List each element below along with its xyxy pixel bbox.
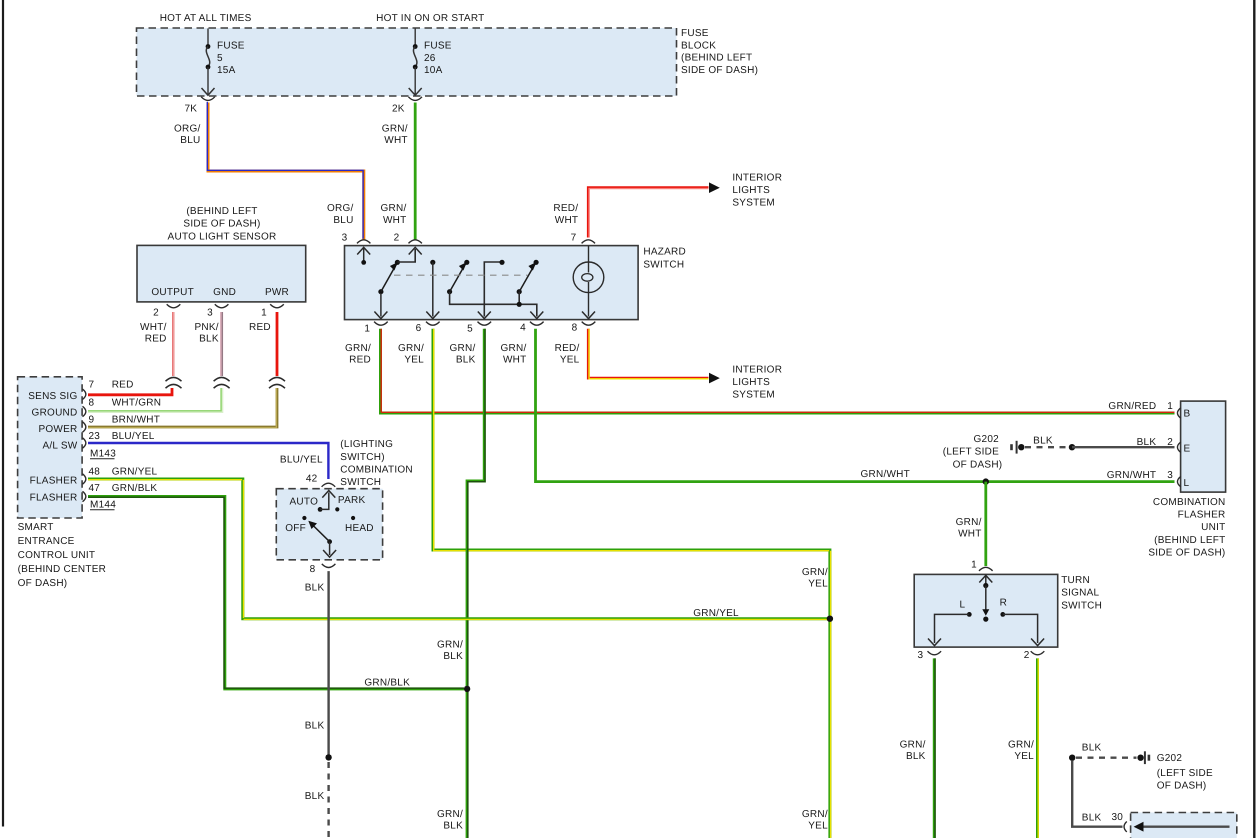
svg-text:RED: RED xyxy=(145,334,167,345)
svg-text:WHT/: WHT/ xyxy=(140,322,167,333)
svg-text:RED: RED xyxy=(249,322,271,333)
svg-text:GRN/WHT: GRN/WHT xyxy=(860,469,910,480)
svg-text:GND: GND xyxy=(213,287,236,298)
hazard pin 1 (bottom) xyxy=(374,322,388,326)
svg-text:RED: RED xyxy=(349,354,371,365)
svg-text:1: 1 xyxy=(364,324,370,335)
svg-text:BLK: BLK xyxy=(199,334,219,345)
svg-text:L: L xyxy=(1184,478,1190,489)
arrow to interior lights system xyxy=(709,182,720,193)
svg-text:HOT IN ON OR START: HOT IN ON OR START xyxy=(376,13,484,24)
hazard switch box xyxy=(345,246,639,320)
svg-text:BLK: BLK xyxy=(443,821,463,832)
svg-text:26: 26 xyxy=(424,53,436,64)
connector at dashed box xyxy=(1124,822,1127,832)
hazard internal: pin5 tap xyxy=(484,262,502,317)
svg-text:GRN/: GRN/ xyxy=(345,343,371,354)
svg-text:8: 8 xyxy=(89,398,95,409)
flasher pin L(3) connector xyxy=(1177,476,1180,486)
svg-text:BLK: BLK xyxy=(305,721,325,732)
svg-text:GRN/RED: GRN/RED xyxy=(1108,401,1156,412)
svg-text:1: 1 xyxy=(971,560,977,571)
svg-text:YEL: YEL xyxy=(404,354,424,365)
svg-text:COMBINATION: COMBINATION xyxy=(340,464,413,475)
svg-text:48: 48 xyxy=(89,467,101,478)
svg-text:23: 23 xyxy=(89,431,101,442)
svg-text:YEL: YEL xyxy=(808,821,828,832)
svg-text:HEAD: HEAD xyxy=(345,523,374,534)
inline connector (BRN/WHT to RED) xyxy=(269,377,285,381)
svg-text:BLU: BLU xyxy=(333,215,353,226)
svg-text:OF DASH): OF DASH) xyxy=(1157,781,1207,792)
TS internal: common pole xyxy=(985,575,987,583)
svg-text:PARK: PARK xyxy=(338,495,366,506)
fuse 26 10A xyxy=(409,29,452,96)
svg-text:GRN/: GRN/ xyxy=(398,343,424,354)
svg-text:INTERIOR: INTERIOR xyxy=(732,365,782,376)
svg-text:10A: 10A xyxy=(424,65,443,76)
turn signal switch box xyxy=(914,574,1057,647)
svg-text:GRN/WHT: GRN/WHT xyxy=(1107,470,1157,481)
wire BLK inside module with left arrow xyxy=(1138,826,1230,828)
svg-text:WHT: WHT xyxy=(384,135,408,146)
svg-text:7: 7 xyxy=(571,233,577,244)
hazard pin 4 (bottom) xyxy=(530,322,544,326)
comb switch internal: PARK contact xyxy=(335,507,339,511)
svg-text:AUTO: AUTO xyxy=(290,497,319,508)
svg-text:3: 3 xyxy=(342,233,348,244)
junction GRN/BLK xyxy=(464,686,470,692)
svg-text:4: 4 xyxy=(520,323,526,334)
svg-text:G202: G202 xyxy=(1157,753,1183,764)
pin 23 connector xyxy=(83,438,86,448)
svg-text:SWITCH: SWITCH xyxy=(1061,600,1102,611)
svg-text:RED/: RED/ xyxy=(553,203,578,214)
svg-text:GRN/: GRN/ xyxy=(437,809,463,820)
connector 2K xyxy=(408,97,422,101)
svg-text:BRN/WHT: BRN/WHT xyxy=(112,415,160,426)
svg-text:COMBINATION: COMBINATION xyxy=(1153,497,1226,508)
svg-text:FLASHER: FLASHER xyxy=(30,476,78,487)
svg-text:SIDE OF DASH): SIDE OF DASH) xyxy=(183,219,260,230)
svg-text:1: 1 xyxy=(1167,401,1173,412)
wire BLK to flasher pin E xyxy=(1072,446,1175,448)
svg-text:L: L xyxy=(959,600,965,611)
page left border xyxy=(2,0,4,827)
svg-text:WHT/GRN: WHT/GRN xyxy=(112,398,162,409)
svg-text:ENTRANCE: ENTRANCE xyxy=(18,536,75,547)
svg-text:GRN/: GRN/ xyxy=(437,639,463,650)
svg-text:SYSTEM: SYSTEM xyxy=(732,197,775,208)
svg-text:3: 3 xyxy=(917,650,923,661)
svg-text:G202: G202 xyxy=(974,434,1000,445)
svg-text:(BEHIND LEFT: (BEHIND LEFT xyxy=(1154,535,1225,546)
svg-text:(LEFT SIDE: (LEFT SIDE xyxy=(943,447,999,458)
combination switch pin 42 connector xyxy=(322,483,336,487)
svg-text:BLOCK: BLOCK xyxy=(681,40,716,51)
svg-text:BLU/YEL: BLU/YEL xyxy=(112,431,155,442)
svg-text:WHT: WHT xyxy=(383,215,407,226)
svg-text:SIDE OF DASH): SIDE OF DASH) xyxy=(1148,547,1225,558)
svg-text:7K: 7K xyxy=(185,104,198,115)
svg-text:GRN/: GRN/ xyxy=(900,739,926,750)
svg-text:SMART: SMART xyxy=(18,522,54,533)
svg-text:GRN/: GRN/ xyxy=(381,203,407,214)
junction BLK (bottom) xyxy=(1069,755,1075,761)
svg-text:INTERIOR: INTERIOR xyxy=(732,173,782,184)
wire BLK dashed continuation xyxy=(327,762,329,838)
svg-text:M143: M143 xyxy=(90,449,116,460)
svg-text:5: 5 xyxy=(467,324,473,335)
wire BLK from comb switch pin 8 xyxy=(327,571,329,757)
svg-text:AUTO LIGHT SENSOR: AUTO LIGHT SENSOR xyxy=(168,231,277,242)
combination switch box (lighting switch) xyxy=(276,489,382,560)
comb switch internal: blade xyxy=(327,539,332,544)
wire GRN/WHT from hazard pin 4 to combination flasher pin L xyxy=(536,329,1175,482)
svg-text:SWITCH: SWITCH xyxy=(340,477,381,488)
svg-text:BLK: BLK xyxy=(1082,742,1102,753)
hazard pin 2 (top) xyxy=(409,240,422,244)
svg-text:CONTROL UNIT: CONTROL UNIT xyxy=(18,550,96,561)
svg-text:SYSTEM: SYSTEM xyxy=(732,389,775,400)
svg-text:SENS SIG: SENS SIG xyxy=(28,391,77,402)
svg-text:ORG/: ORG/ xyxy=(174,124,201,135)
svg-text:M144: M144 xyxy=(90,500,116,511)
inline connector (WHT/GRN to PNK/BLK) xyxy=(214,377,230,381)
svg-text:GRN/: GRN/ xyxy=(382,124,408,135)
pin 9 connector xyxy=(83,422,86,432)
svg-text:5: 5 xyxy=(217,53,223,64)
svg-text:GROUND: GROUND xyxy=(32,407,78,418)
svg-text:2: 2 xyxy=(153,308,159,319)
svg-text:GRN/: GRN/ xyxy=(450,343,476,354)
pin 2 connector xyxy=(167,304,181,308)
hazard internal: pole 2 xyxy=(430,260,435,265)
wire GRN/YEL from SECU pin 48 xyxy=(88,479,829,619)
svg-text:2: 2 xyxy=(394,233,400,244)
wire RED from SECU pin 7 xyxy=(88,388,172,395)
svg-text:UNIT: UNIT xyxy=(1201,522,1225,533)
svg-text:BLK: BLK xyxy=(305,582,325,593)
hazard pin 8 (bottom) xyxy=(582,322,596,326)
junction GRN/WHT xyxy=(983,478,989,484)
flasher pin E(2) connector xyxy=(1177,442,1180,452)
svg-text:RED/: RED/ xyxy=(555,343,580,354)
svg-text:YEL: YEL xyxy=(560,354,580,365)
svg-text:BLK: BLK xyxy=(443,651,463,662)
svg-text:2: 2 xyxy=(1024,650,1030,661)
svg-text:(LIGHTING: (LIGHTING xyxy=(340,439,393,450)
svg-text:6: 6 xyxy=(416,323,422,334)
svg-text:GRN/BLK: GRN/BLK xyxy=(364,677,410,688)
svg-text:BLK: BLK xyxy=(906,751,926,762)
svg-text:GRN/: GRN/ xyxy=(1008,739,1034,750)
svg-text:R: R xyxy=(1000,598,1007,609)
svg-text:3: 3 xyxy=(1167,470,1173,481)
wire WHT/GRN from SECU pin 8 xyxy=(88,388,222,412)
wire BLU/YEL from SECU pin 23 to combination switch pin 42 xyxy=(88,443,328,479)
svg-text:FLASHER: FLASHER xyxy=(1178,510,1226,521)
hazard internal: pole 1 xyxy=(378,289,383,294)
svg-text:(BEHIND LEFT: (BEHIND LEFT xyxy=(681,53,752,64)
svg-text:YEL: YEL xyxy=(808,578,828,589)
wire GRN/WHT from fuse 26 to hazard pin 2 xyxy=(414,103,417,240)
svg-text:BLK: BLK xyxy=(305,791,325,802)
pin 8 connector xyxy=(83,406,86,416)
svg-text:PWR: PWR xyxy=(265,287,289,298)
wire BLK dashed to ground xyxy=(1025,446,1069,448)
svg-text:OF DASH): OF DASH) xyxy=(953,459,1003,470)
pin 7 connector xyxy=(83,389,86,399)
svg-text:B: B xyxy=(1184,409,1191,420)
ground G202 (left side of dash) lower xyxy=(1137,751,1213,791)
wire GRN/BLK from SECU pin 47 xyxy=(88,497,464,689)
svg-text:WHT: WHT xyxy=(503,354,527,365)
hazard pin 7 (top) xyxy=(582,240,595,244)
pin 48 connector xyxy=(83,474,86,484)
wire GRN/RED from hazard pin 1 to combination flasher pin B xyxy=(381,329,1175,413)
pin 47 connector xyxy=(83,491,86,501)
svg-text:3: 3 xyxy=(207,308,213,319)
turn signal pin 2 connector xyxy=(1031,651,1045,655)
comb switch internal: AUTO contact and arrow to pin 42 xyxy=(318,507,323,512)
inline connector (WHT/RED to RED) xyxy=(166,377,182,381)
svg-text:OFF: OFF xyxy=(285,523,306,534)
svg-text:(LEFT SIDE: (LEFT SIDE xyxy=(1157,768,1213,779)
hazard pin 5 (bottom) xyxy=(478,322,492,326)
svg-text:GRN/: GRN/ xyxy=(956,517,982,528)
hazard pin 3 (top) xyxy=(357,240,370,244)
wire RED/WHT from hazard pin 7 to interior lights system xyxy=(588,188,708,238)
svg-text:POWER: POWER xyxy=(38,424,77,435)
wire ORG/BLU from fuse 5 to hazard pin 3 xyxy=(208,103,364,240)
svg-text:1: 1 xyxy=(261,308,267,319)
wire BRN/WHT from SECU pin 9 xyxy=(88,388,277,427)
fuse 5 15A xyxy=(202,29,245,96)
svg-text:FUSE: FUSE xyxy=(681,28,709,39)
dashed module box (bottom right) xyxy=(1131,813,1237,838)
wire RED from sensor pin 1 xyxy=(276,312,279,376)
wire WHT/RED from sensor pin 2 xyxy=(172,312,175,376)
svg-text:FLASHER: FLASHER xyxy=(30,492,78,503)
pin 1 connector xyxy=(270,304,284,308)
hazard pin 6 (bottom) xyxy=(426,322,440,326)
svg-text:FUSE: FUSE xyxy=(424,41,452,52)
svg-text:LIGHTS: LIGHTS xyxy=(732,377,770,388)
svg-text:BLK: BLK xyxy=(1033,436,1053,447)
svg-text:SWITCH: SWITCH xyxy=(643,259,684,270)
svg-text:GRN/: GRN/ xyxy=(501,343,527,354)
svg-text:PNK/: PNK/ xyxy=(194,322,218,333)
comb switch internal: OFF contact xyxy=(302,516,306,520)
arrow to interior lights system (lower) xyxy=(709,373,720,384)
svg-text:GRN/YEL: GRN/YEL xyxy=(693,608,739,619)
svg-text:BLU/YEL: BLU/YEL xyxy=(280,455,323,466)
junction GRN/YEL xyxy=(827,616,833,622)
wire GRN/YEL from hazard pin 6 xyxy=(433,329,830,838)
svg-text:(BEHIND LEFT: (BEHIND LEFT xyxy=(186,206,257,217)
svg-text:15A: 15A xyxy=(217,65,236,76)
svg-text:HAZARD: HAZARD xyxy=(643,247,686,258)
svg-text:(BEHIND CENTER: (BEHIND CENTER xyxy=(18,564,107,575)
junction BLK xyxy=(1069,444,1075,450)
svg-text:GRN/BLK: GRN/BLK xyxy=(112,483,158,494)
svg-text:RED: RED xyxy=(112,380,134,391)
combination flasher unit box xyxy=(1181,401,1226,492)
smart entrance control unit box xyxy=(18,377,83,518)
pin 3 connector xyxy=(215,304,229,308)
svg-text:YEL: YEL xyxy=(1014,751,1034,762)
svg-text:LIGHTS: LIGHTS xyxy=(732,185,770,196)
svg-text:BLU: BLU xyxy=(180,135,200,146)
page right border xyxy=(1253,0,1255,838)
svg-text:WHT: WHT xyxy=(958,528,982,539)
svg-text:ORG/: ORG/ xyxy=(327,203,354,214)
hazard internal: dashed divider xyxy=(394,274,528,276)
svg-text:OF DASH): OF DASH) xyxy=(18,578,68,589)
wire BLK 30 xyxy=(1072,761,1122,827)
svg-text:GRN/: GRN/ xyxy=(802,567,828,578)
svg-text:7: 7 xyxy=(89,380,95,391)
comb switch internal: HEAD contact xyxy=(351,516,355,520)
svg-text:2K: 2K xyxy=(392,104,405,115)
comb switch pin 8 connector xyxy=(322,564,336,568)
hazard internal: pole 3 xyxy=(517,289,522,294)
svg-text:SWITCH): SWITCH) xyxy=(340,452,385,463)
wire BLK dashed to ground G202 lower xyxy=(1076,757,1137,759)
svg-text:GRN/: GRN/ xyxy=(802,809,828,820)
svg-text:A/L SW: A/L SW xyxy=(42,440,77,451)
wire GRN/YEL from TS pin 2 xyxy=(1036,658,1039,838)
wire GRN/BLK from hazard pin 5 xyxy=(467,329,484,838)
svg-text:HOT AT ALL TIMES: HOT AT ALL TIMES xyxy=(160,13,252,24)
wire GRN/WHT branch to turn signal pin 1 xyxy=(984,482,987,566)
svg-text:9: 9 xyxy=(89,415,95,426)
fuse block (behind left side of dash) xyxy=(137,28,677,96)
svg-text:BLK: BLK xyxy=(1082,812,1102,823)
svg-text:WHT: WHT xyxy=(555,215,579,226)
turn signal pin 3 connector xyxy=(928,651,942,655)
flasher pin B(1) connector xyxy=(1177,408,1180,418)
svg-text:8: 8 xyxy=(310,564,316,575)
svg-text:OUTPUT: OUTPUT xyxy=(151,287,194,298)
svg-text:FUSE: FUSE xyxy=(217,41,245,52)
wire RED/YEL from hazard pin 8 to interior lights system xyxy=(588,329,708,378)
junction BLK xyxy=(325,754,331,760)
svg-text:SIGNAL: SIGNAL xyxy=(1061,588,1099,599)
svg-text:42: 42 xyxy=(306,473,318,484)
svg-text:BLK: BLK xyxy=(456,354,476,365)
connector 7K xyxy=(201,97,215,101)
hazard internal: pin3 arrow up xyxy=(363,249,365,261)
auto light sensor box xyxy=(137,245,306,302)
svg-text:SIDE OF DASH): SIDE OF DASH) xyxy=(681,65,758,76)
ground G202 (left side of dash) upper xyxy=(943,434,1025,470)
svg-text:8: 8 xyxy=(572,323,578,334)
hazard internal: lamp xyxy=(588,246,590,263)
svg-text:47: 47 xyxy=(89,483,101,494)
wire GRN/BLK from TS pin 3 xyxy=(933,658,936,838)
svg-text:30: 30 xyxy=(1112,812,1124,823)
svg-text:TURN: TURN xyxy=(1061,575,1090,586)
svg-text:E: E xyxy=(1184,444,1191,455)
svg-text:GRN/YEL: GRN/YEL xyxy=(112,467,158,478)
wire PNK/BLK from sensor pin 3 xyxy=(220,312,223,376)
